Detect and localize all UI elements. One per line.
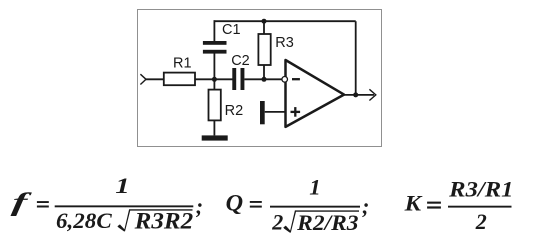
node A junction dot: [212, 77, 217, 82]
inverting input open circle: [282, 77, 288, 83]
wire node A down to R2: [213, 79, 215, 89]
wire R2 to ground: [213, 120, 215, 135]
svg-text:R2/R3: R2/R3: [296, 210, 358, 235]
capacitor C2: [232, 68, 244, 90]
fraction bar f: [55, 205, 194, 207]
resistor R2: [209, 90, 221, 121]
ground (bottom bar): [202, 135, 228, 140]
wire op-amp output to node D: [343, 94, 374, 96]
svg-text:1: 1: [115, 173, 130, 198]
op-amp plus sign: [291, 107, 301, 117]
radical Q: [283, 210, 359, 232]
svg-text:R3/R1: R3/R1: [448, 177, 513, 202]
input terminal: [140, 74, 146, 84]
svg-text:R3: R3: [275, 35, 294, 51]
output terminal arrow: [369, 89, 375, 100]
svg-text:C2: C2: [231, 53, 250, 69]
svg-text:1: 1: [309, 175, 321, 200]
svg-text:6,28C: 6,28C: [56, 208, 112, 233]
svg-text:2: 2: [475, 209, 487, 234]
wire node B down to R3: [263, 21, 265, 34]
svg-text:f: f: [10, 188, 32, 217]
svg-text:R1: R1: [173, 56, 192, 72]
svg-text:R3R2: R3R2: [134, 209, 194, 234]
formula K: [404, 177, 514, 234]
svg-text:;: ;: [196, 194, 203, 219]
node C junction dot: [262, 77, 267, 82]
wire node A up to C1: [213, 54, 215, 80]
svg-text:;: ;: [362, 194, 369, 219]
svg-text:2: 2: [271, 210, 283, 235]
wire input to R1: [146, 78, 164, 80]
resistor R1: [164, 73, 195, 86]
svg-text:K: K: [404, 190, 423, 215]
equals sign 1: [37, 201, 49, 203]
resistor R3: [258, 34, 270, 65]
formula f: [10, 173, 203, 234]
capacitor C1: [203, 41, 227, 54]
fraction bar Q: [270, 206, 360, 208]
equals sign 3: [427, 202, 441, 204]
wire ground bar to non-inverting input: [265, 111, 285, 113]
wire feedback down right side: [355, 21, 357, 95]
fraction bar K: [448, 206, 512, 208]
equals sign 2: [250, 201, 262, 203]
wire R3 to node C: [263, 65, 265, 79]
node B junction dot (R3 top): [262, 19, 267, 24]
op-amp minus sign: [292, 78, 300, 80]
wire C2 to inverting input: [244, 78, 281, 80]
node D output junction dot: [353, 92, 358, 97]
op-amp U1: [286, 60, 345, 127]
svg-text:C1: C1: [222, 22, 241, 38]
wire C1 up to top feedback wire: [213, 20, 215, 41]
radical f: [117, 209, 192, 231]
formula Q: [226, 175, 370, 235]
svg-text:R2: R2: [225, 103, 244, 119]
svg-text:Q: Q: [226, 191, 244, 216]
wire R1 to node A: [195, 78, 233, 80]
top feedback wire: [214, 20, 356, 22]
ground bar (non-inverting input): [260, 101, 265, 124]
